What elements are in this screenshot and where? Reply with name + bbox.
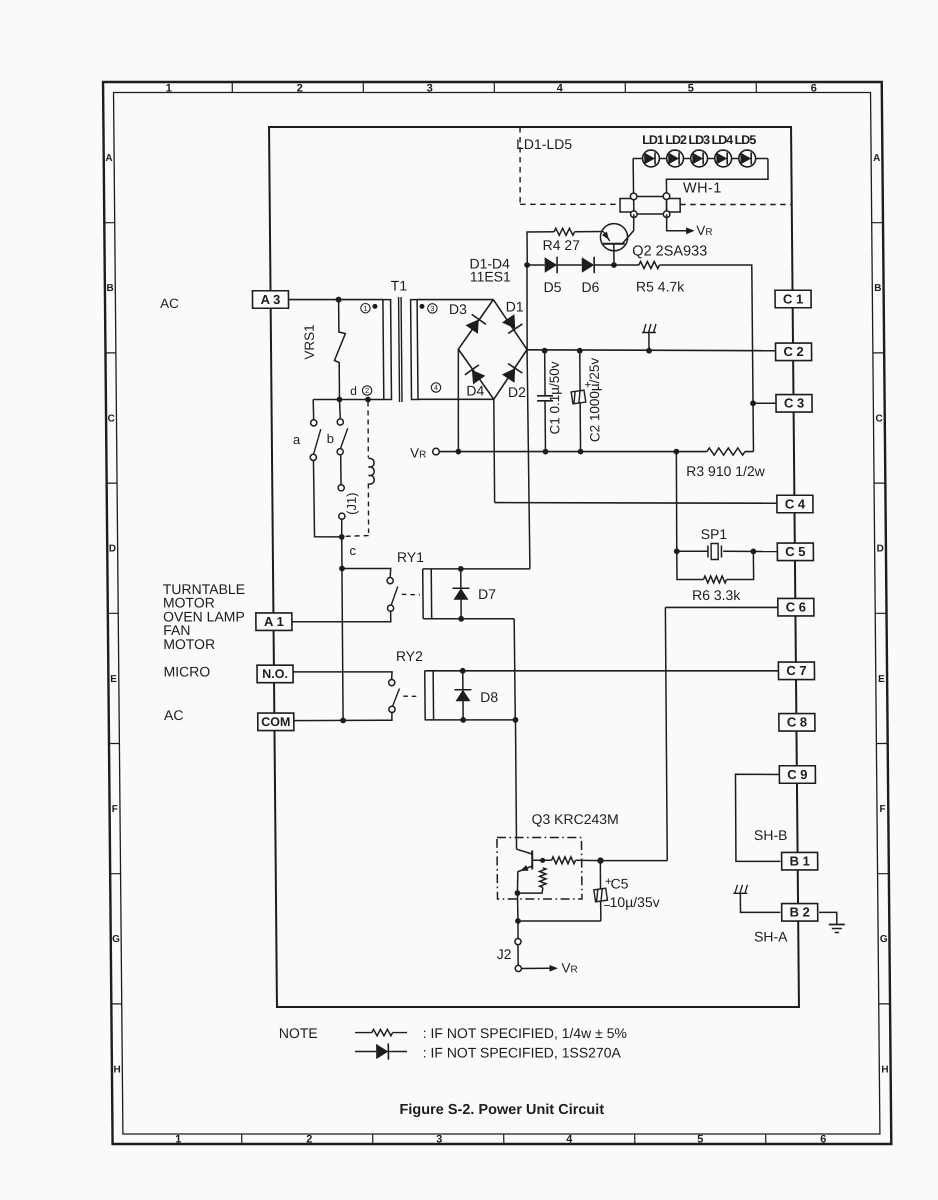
svg-text:R3 910 1/2w: R3 910 1/2w <box>686 463 766 479</box>
svg-text:A: A <box>105 153 112 164</box>
svg-text:C: C <box>875 413 882 424</box>
svg-text:1: 1 <box>363 304 367 313</box>
svg-text:C 9: C 9 <box>787 767 807 782</box>
svg-text:R6 3.3k: R6 3.3k <box>692 587 741 603</box>
svg-text:H: H <box>113 1064 120 1075</box>
svg-text:D: D <box>109 544 116 555</box>
svg-text:3: 3 <box>430 304 434 313</box>
svg-text:3: 3 <box>427 83 433 95</box>
svg-text:d: d <box>350 384 357 398</box>
svg-text:D8: D8 <box>480 689 498 705</box>
svg-text:SH-B: SH-B <box>754 827 788 843</box>
svg-text:C 8: C 8 <box>787 715 807 730</box>
svg-text:a: a <box>293 432 301 447</box>
svg-text:: IF NOT SPECIFIED, 1/4w ± 5%: : IF NOT SPECIFIED, 1/4w ± 5% <box>423 1025 627 1041</box>
svg-text:5: 5 <box>697 1134 703 1146</box>
svg-text:C 6: C 6 <box>786 600 806 615</box>
svg-text:F: F <box>112 804 118 815</box>
svg-text:AC: AC <box>160 296 179 311</box>
svg-text:Q2 2SA933: Q2 2SA933 <box>632 244 707 260</box>
svg-text:D3: D3 <box>449 301 467 317</box>
svg-text:C 5: C 5 <box>785 544 805 559</box>
svg-text:D6: D6 <box>581 279 599 295</box>
svg-text:SH-A: SH-A <box>754 929 788 945</box>
svg-text:H: H <box>881 1064 888 1075</box>
svg-text:2: 2 <box>306 1134 312 1146</box>
svg-text:Figure S-2. Power Unit Circuit: Figure S-2. Power Unit Circuit <box>399 1102 604 1118</box>
svg-text:A: A <box>873 153 880 164</box>
svg-text:3: 3 <box>436 1134 442 1146</box>
svg-text:G: G <box>880 934 888 945</box>
svg-text:C 2: C 2 <box>783 344 803 359</box>
svg-text:LD1 LD2 LD3 LD4 LD5: LD1 LD2 LD3 LD4 LD5 <box>642 133 756 147</box>
svg-text:C 4: C 4 <box>785 496 806 511</box>
svg-text:A 3: A 3 <box>261 292 281 307</box>
svg-text:N.O.: N.O. <box>262 667 288 681</box>
svg-text:MOTOR: MOTOR <box>163 636 215 652</box>
svg-text:D7: D7 <box>478 586 496 602</box>
svg-text:F: F <box>879 804 885 815</box>
svg-text:WH-1: WH-1 <box>683 181 722 197</box>
svg-text:11ES1: 11ES1 <box>470 269 511 285</box>
svg-text:J2: J2 <box>497 946 512 962</box>
svg-text:6: 6 <box>820 1134 826 1146</box>
svg-text:6: 6 <box>811 83 817 95</box>
svg-text:NOTE: NOTE <box>279 1025 318 1041</box>
svg-text:4: 4 <box>434 383 438 392</box>
svg-text:B 2: B 2 <box>790 905 810 920</box>
svg-text:MICRO: MICRO <box>163 664 210 680</box>
svg-text:SP1: SP1 <box>701 526 728 542</box>
svg-text:C2 1000µ/25v: C2 1000µ/25v <box>587 358 603 443</box>
svg-text:c: c <box>349 543 356 558</box>
svg-text:2: 2 <box>365 386 369 395</box>
svg-text:D: D <box>877 544 884 555</box>
svg-text:4: 4 <box>557 83 564 95</box>
svg-text:B: B <box>106 283 113 294</box>
svg-text:R5 4.7k: R5 4.7k <box>636 279 685 295</box>
svg-text:D1: D1 <box>506 299 524 315</box>
svg-text:T1: T1 <box>391 278 408 294</box>
svg-text:C 1: C 1 <box>783 291 803 306</box>
svg-text:D4: D4 <box>466 383 484 399</box>
svg-text:10µ/35v: 10µ/35v <box>610 894 660 910</box>
svg-text:C 7: C 7 <box>786 663 806 678</box>
svg-text:G: G <box>112 934 120 945</box>
svg-text:b: b <box>327 431 334 446</box>
svg-text:RY1: RY1 <box>397 549 424 565</box>
svg-text:A 1: A 1 <box>264 614 284 629</box>
svg-text:RY2: RY2 <box>396 648 423 664</box>
svg-text:D2: D2 <box>508 384 526 400</box>
svg-text:2: 2 <box>297 83 303 95</box>
svg-text:E: E <box>110 674 117 685</box>
svg-text:C 3: C 3 <box>784 396 804 411</box>
svg-text:C: C <box>108 413 115 424</box>
svg-text:LD1-LD5: LD1-LD5 <box>516 136 572 152</box>
svg-text:B 1: B 1 <box>789 854 809 869</box>
svg-text:AC: AC <box>164 707 184 723</box>
svg-text:E: E <box>878 674 885 685</box>
svg-text:: IF NOT SPECIFIED, 1SS270A: : IF NOT SPECIFIED, 1SS270A <box>423 1045 622 1061</box>
svg-text:B: B <box>874 283 881 294</box>
svg-text:COM: COM <box>261 715 290 729</box>
svg-text:C1 0.1µ/50v: C1 0.1µ/50v <box>547 361 563 434</box>
svg-text:Q3 KRC243M: Q3 KRC243M <box>531 811 618 827</box>
svg-text:D5: D5 <box>544 279 562 295</box>
svg-text:R4 27: R4 27 <box>543 237 581 253</box>
svg-text:1: 1 <box>166 83 172 95</box>
svg-text:C5: C5 <box>610 876 628 892</box>
svg-text:(J1): (J1) <box>344 493 359 515</box>
svg-text:VRS1: VRS1 <box>302 324 317 359</box>
svg-text:4: 4 <box>566 1134 573 1146</box>
svg-text:1: 1 <box>175 1134 181 1146</box>
svg-text:5: 5 <box>688 83 694 95</box>
